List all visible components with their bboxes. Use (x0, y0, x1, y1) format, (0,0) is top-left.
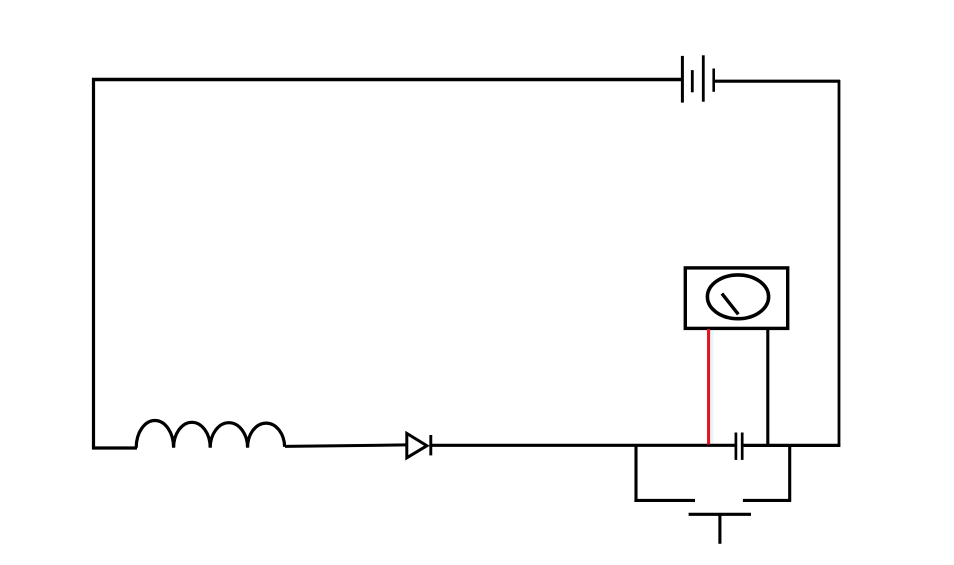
wire: cyan artifact line beside red lead (711, 331, 713, 444)
wire: bottom right segment (right corner to capacitor) (743, 444, 840, 447)
wire: black meter lead (766, 329, 769, 445)
diode D1 (407, 433, 431, 457)
battery B1 (682, 55, 713, 102)
capacitor C1 (736, 433, 742, 460)
wire: switch right contact (743, 499, 791, 502)
wire: switch branch right vertical (788, 446, 791, 502)
wire: red meter lead (707, 329, 710, 445)
meter M1 needle (722, 294, 738, 315)
wire: switch branch left vertical (634, 445, 637, 502)
wire: left vertical side of loop (92, 78, 95, 449)
wire: battery to top-right corner (715, 80, 841, 83)
push-button switch S1 bar (689, 513, 751, 516)
meter M1 dial (ellipse) (707, 275, 768, 319)
wire: bottom-left corner to inductor (92, 446, 137, 449)
wire: inductor to diode (285, 445, 406, 447)
push-button switch S1 stem (718, 515, 721, 544)
wire: bottom middle segment (diode to capacitor) (432, 444, 736, 447)
meter M1 (rectangle body) (685, 268, 787, 329)
wire: right vertical side of loop (838, 80, 841, 447)
wire: top side from top-left corner to battery (92, 78, 681, 81)
inductor L1 (136, 421, 284, 448)
wire: switch left contact (634, 499, 695, 502)
